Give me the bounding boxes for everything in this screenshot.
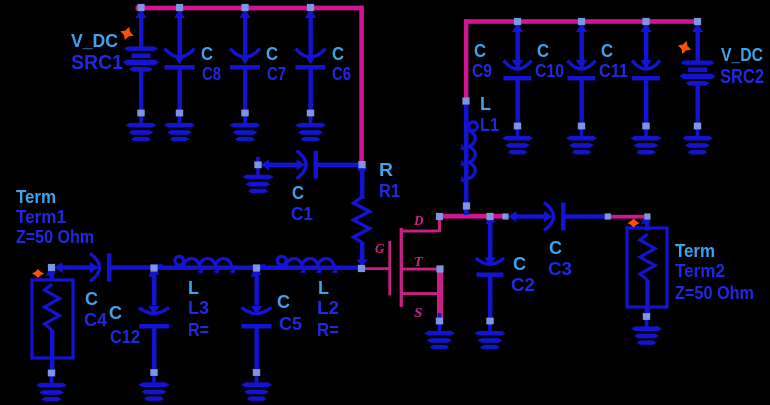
node rail R SRC2 (694, 18, 701, 25)
svg-text:V_DC: V_DC (721, 45, 763, 65)
node L1 bottom (463, 202, 470, 209)
node squares (48, 4, 701, 273)
node rail L C7 (241, 4, 248, 11)
svg-text:L: L (480, 94, 491, 114)
node output C3 (605, 213, 611, 219)
svg-text:C4: C4 (84, 310, 107, 330)
svg-text:C2: C2 (511, 275, 535, 295)
svg-text:D: D (413, 214, 423, 229)
node C12 (150, 264, 157, 271)
capacitor C7 (230, 9, 260, 115)
svg-text:S: S (414, 306, 423, 321)
svg-text:R=: R= (188, 320, 209, 340)
svg-text:C9: C9 (472, 61, 492, 81)
capacitor C2 (476, 216, 504, 319)
terminal Term1 (32, 268, 73, 372)
svg-text:C: C (537, 41, 549, 61)
svg-text:C1: C1 (291, 204, 313, 224)
svg-text:SRC1: SRC1 (71, 52, 123, 74)
node rail L C6 (307, 4, 314, 11)
capacitor C9 (504, 23, 532, 127)
svg-text:C: C (513, 254, 526, 274)
svg-text:R=: R= (317, 320, 339, 340)
node C5 (253, 264, 260, 271)
node Term1 (48, 264, 55, 271)
svg-text:Term: Term (675, 241, 715, 261)
ground (682, 118, 713, 154)
sparkle Term1 (32, 269, 44, 278)
svg-text:L: L (318, 278, 329, 298)
ground (243, 157, 274, 193)
svg-text:Z=50 Ohm: Z=50 Ohm (16, 227, 94, 247)
svg-text:L: L (188, 278, 199, 298)
capacitor C4 (54, 254, 156, 282)
V_DC source SRC1 (123, 9, 159, 115)
sparkle Term2 (628, 218, 640, 227)
svg-text:Term2: Term2 (675, 261, 725, 281)
svg-text:L2: L2 (317, 298, 339, 318)
wire: output segment to Term2 (609, 215, 646, 219)
inductor L3 (154, 256, 260, 273)
svg-text:C5: C5 (279, 314, 302, 334)
ground (566, 118, 597, 154)
node C2 top (486, 213, 493, 220)
svg-text:C: C (109, 303, 122, 323)
svg-text:C: C (277, 292, 290, 312)
capacitor C8 (165, 9, 195, 115)
svg-text:C: C (474, 41, 486, 61)
capacitor C5 (242, 264, 272, 371)
node rail L battery (137, 4, 144, 11)
capacitor C11 (632, 23, 660, 127)
svg-text:C6: C6 (332, 64, 351, 84)
ground (295, 105, 326, 141)
node R1 top / C1 (358, 161, 365, 168)
svg-text:Z=50 Ohm: Z=50 Ohm (675, 283, 754, 303)
svg-text:C11: C11 (599, 61, 628, 81)
node gate (358, 265, 365, 272)
svg-text:C8: C8 (202, 64, 221, 84)
capacitor C12 (139, 264, 169, 371)
node drain (436, 213, 443, 220)
node L1 top (462, 97, 469, 104)
node FET T (436, 265, 443, 272)
svg-text:R: R (379, 160, 393, 180)
node C3 pin1 (502, 213, 508, 219)
wire: left bias rail (net VD highlighted) (136, 6, 364, 163)
capacitor C6 (296, 9, 326, 115)
node rail R C10 (578, 18, 585, 25)
svg-text:T: T (414, 255, 424, 270)
svg-text:C: C (85, 289, 98, 309)
node rail R C9 (514, 18, 521, 25)
capacitor C1 (261, 151, 363, 179)
node rail L C8 (176, 4, 183, 11)
ground (631, 118, 662, 154)
sparkle SRC1 (118, 25, 136, 43)
svg-text:C: C (266, 44, 278, 64)
inductor L2 (257, 256, 363, 273)
ground (502, 118, 533, 154)
terminal Term2 (627, 216, 667, 317)
svg-text:R1: R1 (379, 181, 400, 201)
svg-text:C: C (601, 41, 613, 61)
svg-text:C: C (332, 44, 344, 64)
transistor MOSFET (selected, pink) (388, 217, 443, 319)
wire: drain rail (438, 214, 508, 219)
svg-text:C7: C7 (267, 64, 286, 84)
wire: right bias rail (464, 19, 701, 99)
sparkle SRC2 (676, 39, 694, 57)
capacitor C10 (568, 23, 596, 127)
ground (FET source) (424, 313, 455, 349)
ground (241, 365, 272, 401)
svg-text:C10: C10 (535, 61, 564, 81)
svg-text:Term: Term (16, 187, 56, 207)
svg-text:C12: C12 (110, 327, 140, 347)
ground (36, 365, 67, 401)
svg-text:L3: L3 (188, 298, 209, 318)
svg-text:V_DC: V_DC (71, 31, 118, 51)
svg-text:C: C (549, 238, 562, 258)
svg-text:C: C (201, 44, 213, 64)
V_DC source SRC2 (680, 23, 716, 129)
ground (139, 365, 170, 401)
ground (230, 105, 261, 141)
node rail R C11 (642, 18, 649, 25)
svg-text:C3: C3 (548, 259, 572, 279)
capacitor C3 (508, 203, 610, 231)
ground (475, 313, 506, 349)
svg-text:SRC2: SRC2 (720, 66, 764, 88)
svg-text:G: G (375, 242, 385, 257)
ground (631, 309, 662, 345)
resistor R1 (354, 167, 370, 267)
inductor L1 (461, 101, 478, 215)
wire: gate wire (364, 267, 389, 270)
svg-text:L1: L1 (480, 115, 499, 135)
svg-text:Term1: Term1 (16, 207, 66, 227)
node Term2 top (644, 213, 650, 219)
ground (164, 105, 195, 141)
svg-text:C: C (292, 183, 304, 203)
ground (126, 105, 157, 141)
